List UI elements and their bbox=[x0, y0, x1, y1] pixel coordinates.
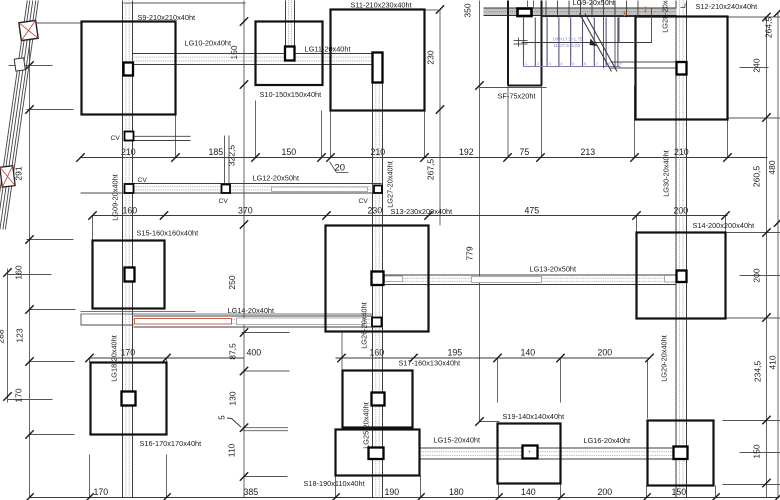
svg-text:S12-210x240x40ht: S12-210x240x40ht bbox=[696, 2, 758, 11]
dimension line A (top chain y=157) bbox=[81, 157, 768, 159]
svg-text:385: 385 bbox=[244, 487, 259, 497]
svg-text:S18-190x110x40ht: S18-190x110x40ht bbox=[304, 479, 365, 488]
vertical beam LG28/LG30/LG29 line bbox=[675, 1, 677, 498]
svg-text:192: 192 bbox=[459, 147, 474, 157]
svg-text:S13-230x200x40ht: S13-230x200x40ht bbox=[391, 207, 453, 216]
svg-text:410: 410 bbox=[768, 355, 778, 369]
dimension line B (y=215) bbox=[93, 215, 728, 217]
svg-text:291: 291 bbox=[14, 166, 24, 180]
svg-text:200: 200 bbox=[752, 268, 762, 282]
footing S16 bbox=[91, 363, 167, 435]
svg-text:123: 123 bbox=[15, 328, 25, 342]
stair flight divider line bbox=[522, 42, 652, 44]
svg-text:LG9-20x50ht: LG9-20x50ht bbox=[573, 0, 615, 7]
svg-text:150: 150 bbox=[672, 487, 687, 497]
svg-text:230: 230 bbox=[426, 50, 436, 64]
right vertical dimension chains bbox=[762, 13, 770, 21]
svg-text:240: 240 bbox=[752, 58, 762, 72]
footing S11 bbox=[331, 10, 425, 111]
top beam over stairs (grey) bbox=[484, 8, 677, 16]
svg-text:LG25-20x40ht: LG25-20x40ht bbox=[362, 402, 371, 449]
leader from S11 corner to dim 230 bbox=[425, 9, 441, 11]
svg-text:75: 75 bbox=[520, 147, 530, 157]
dimension line D (bottom y=497) bbox=[30, 497, 779, 499]
svg-text:LG10-20x40ht: LG10-20x40ht bbox=[185, 39, 232, 48]
orange ticks on top beam bbox=[624, 11, 626, 16]
stair hatch mark bbox=[514, 40, 528, 42]
svg-text:195: 195 bbox=[448, 348, 463, 358]
svg-text:LG27-20x40ht: LG27-20x40ht bbox=[386, 161, 395, 208]
footing S17 bbox=[343, 371, 413, 428]
grid and extension lines bbox=[7, 269, 9, 403]
svg-text:S15-160x160x40ht: S15-160x160x40ht bbox=[137, 229, 199, 238]
svg-text:264,5: 264,5 bbox=[764, 17, 774, 39]
svg-text:150: 150 bbox=[282, 147, 297, 157]
stair-to-S12 beam lines bbox=[611, 61, 677, 63]
beam LG15/LG16 (y=447-458) bbox=[420, 447, 674, 449]
verticals above top beam bbox=[527, 1, 529, 9]
footing S10 bbox=[256, 22, 323, 86]
footing S12 bbox=[636, 17, 728, 120]
ramp block 2 bbox=[14, 58, 25, 71]
svg-text:LG30-20x40ht: LG30-20x40ht bbox=[662, 150, 671, 197]
svg-text:LG15-20x40ht: LG15-20x40ht bbox=[434, 436, 481, 445]
vertical beam LG26/LG25 line bbox=[372, 53, 374, 498]
beam LG12 (y=183-192) bbox=[133, 183, 382, 185]
small bracket near VB4 top bbox=[681, 7, 686, 9]
svg-text:160: 160 bbox=[14, 265, 24, 279]
svg-text:SF-75x20ht: SF-75x20ht bbox=[498, 92, 536, 101]
svg-text:LG26-20x40ht: LG26-20x40ht bbox=[360, 302, 369, 349]
svg-text:S17-160x130x40ht: S17-160x130x40ht bbox=[399, 359, 461, 368]
svg-text:779: 779 bbox=[465, 246, 475, 260]
ramp block 3 bbox=[0, 166, 15, 187]
footing S9 bbox=[82, 22, 176, 115]
svg-text:185: 185 bbox=[209, 147, 224, 157]
column on top beam bbox=[518, 9, 532, 17]
svg-text:130: 130 bbox=[228, 391, 238, 405]
svg-text:CV: CV bbox=[138, 177, 148, 184]
svg-text:234,5: 234,5 bbox=[753, 361, 763, 383]
svg-text:150: 150 bbox=[752, 444, 762, 458]
svg-text:20: 20 bbox=[335, 163, 346, 174]
beam LG13 (y=274-284) bbox=[384, 274, 677, 276]
svg-text:140: 140 bbox=[521, 487, 536, 497]
svg-text:S19-140x140x40ht: S19-140x140x40ht bbox=[503, 412, 565, 421]
svg-text:170: 170 bbox=[14, 388, 24, 402]
vertical beam at S10 bbox=[285, 1, 287, 48]
svg-text:260,5: 260,5 bbox=[752, 166, 762, 188]
svg-text:160: 160 bbox=[123, 206, 138, 216]
beam LG14 (y=315-327) bbox=[134, 315, 373, 317]
CV columns bbox=[125, 132, 134, 141]
stair steps (upper flight over beam) bbox=[545, 1, 547, 18]
vertical beam LG09/LG18 line bbox=[122, 1, 124, 498]
red liner in beam LG14 bbox=[135, 319, 232, 325]
svg-text:200: 200 bbox=[598, 348, 613, 358]
svg-text:288: 288 bbox=[0, 329, 6, 343]
svg-text:LG13-20x50ht: LG13-20x50ht bbox=[530, 265, 577, 274]
footing S13 bbox=[326, 226, 429, 332]
stair up arrow bbox=[580, 14, 612, 72]
svg-text:475: 475 bbox=[525, 206, 540, 216]
svg-text:230: 230 bbox=[368, 206, 383, 216]
svg-text:400: 400 bbox=[247, 348, 262, 358]
ramp top-left bbox=[0, 1, 27, 230]
svg-text:267,5: 267,5 bbox=[426, 159, 436, 181]
svg-text:250: 250 bbox=[227, 275, 237, 289]
svg-text:10Px17,5=1,75: 10Px17,5=1,75 bbox=[553, 37, 583, 42]
svg-text:140: 140 bbox=[521, 348, 536, 358]
dimension line C (y=357.5) bbox=[90, 357, 245, 359]
svg-text:LG11-20x40ht: LG11-20x40ht bbox=[305, 45, 351, 54]
svg-text:S16-170x170x40ht: S16-170x170x40ht bbox=[140, 439, 202, 448]
svg-text:CV: CV bbox=[111, 135, 121, 142]
svg-text:S11-210x230x40ht: S11-210x230x40ht bbox=[351, 1, 412, 10]
svg-text:LG12-20x50ht: LG12-20x50ht bbox=[253, 174, 300, 183]
svg-text:480: 480 bbox=[767, 160, 777, 174]
vertical wall bar near CV bbox=[224, 136, 226, 185]
svg-text:CV: CV bbox=[219, 198, 229, 205]
leader for dim 20 bbox=[330, 162, 337, 173]
svg-text:S9-210x210x40ht: S9-210x210x40ht bbox=[138, 13, 196, 22]
svg-text:87,5: 87,5 bbox=[228, 343, 238, 360]
svg-text:350: 350 bbox=[463, 3, 473, 17]
beam at y=135 bbox=[133, 135, 191, 137]
svg-text:180: 180 bbox=[449, 487, 464, 497]
columns bbox=[124, 63, 134, 76]
svg-text:370: 370 bbox=[238, 206, 253, 216]
svg-text:190: 190 bbox=[385, 487, 400, 497]
beam LG10/LG11 (y=53-64) bbox=[133, 53, 373, 55]
svg-text:110: 110 bbox=[227, 443, 237, 457]
footing S20 (bottom right) bbox=[648, 421, 714, 486]
middle vertical dimensions bbox=[240, 17, 248, 25]
svg-text:LG16-20x40ht: LG16-20x40ht bbox=[584, 436, 631, 445]
footing S14 bbox=[637, 233, 726, 319]
svg-text:LG29-20x40ht: LG29-20x40ht bbox=[660, 335, 669, 382]
svg-text:S14-200x200x40ht: S14-200x200x40ht bbox=[693, 221, 755, 230]
svg-text:LG14-20x40ht: LG14-20x40ht bbox=[228, 306, 275, 315]
svg-text:200: 200 bbox=[598, 487, 613, 497]
svg-text:210: 210 bbox=[121, 147, 136, 157]
footing S18 bbox=[336, 430, 420, 476]
footing S19 bbox=[498, 424, 561, 484]
left vertical dimension chains bbox=[25, 61, 33, 69]
svg-text:213: 213 bbox=[581, 147, 596, 157]
svg-text:11x27,5=3,03: 11x27,5=3,03 bbox=[554, 43, 581, 48]
svg-text:LG18-20x40ht: LG18-20x40ht bbox=[110, 335, 119, 382]
stair steps (lower flight, blue) bbox=[523, 18, 525, 67]
svg-text:170: 170 bbox=[94, 487, 109, 497]
footing S15 bbox=[93, 241, 165, 309]
svg-text:LG09-20x40ht: LG09-20x40ht bbox=[111, 174, 120, 221]
svg-text:S10-150x150x40ht: S10-150x150x40ht bbox=[260, 90, 322, 99]
svg-text:LG28-20x40ht: LG28-20x40ht bbox=[661, 0, 670, 33]
svg-text:CV: CV bbox=[359, 198, 369, 205]
stairwell SF bbox=[507, 1, 509, 86]
svg-text:5: 5 bbox=[218, 415, 227, 420]
svg-text:322,5: 322,5 bbox=[227, 145, 237, 167]
ramp block 1 bbox=[19, 20, 38, 40]
